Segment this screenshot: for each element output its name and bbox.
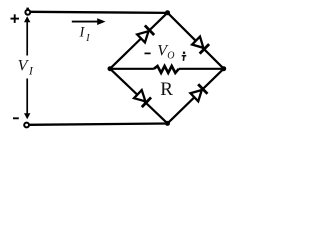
diode D4 bottom-right (anode bottom node, cathode right node) [190, 84, 208, 102]
node top junction dot [165, 10, 170, 15]
diode D1 top-left (anode left node, cathode top node) [136, 25, 154, 43]
current arrow II [72, 18, 106, 25]
wire top: terminal to top node [30, 12, 168, 13]
node bottom junction dot [165, 121, 170, 126]
node left junction dot [108, 66, 113, 71]
label VI [18, 57, 34, 77]
stub above terminal [26, 8, 29, 10]
label VO [157, 43, 174, 62]
label i (current) [182, 52, 187, 61]
svg-text:O: O [167, 51, 174, 62]
terminal bottom-left [24, 123, 29, 128]
voltage arrow VI (double headed, between terminals) [24, 16, 30, 119]
resistor R zigzag [154, 66, 179, 73]
svg-text:I: I [85, 33, 90, 44]
minus sign input polarity [13, 117, 19, 119]
terminal top-left [25, 10, 30, 15]
svg-text:R: R [160, 79, 173, 100]
wire top node to right node [168, 13, 224, 69]
wire bottom: terminal to bottom node [29, 124, 167, 125]
wire left node to resistor [110, 68, 154, 70]
wire left node to top node [110, 13, 168, 69]
wire resistor to right node [179, 68, 224, 70]
diode D3 bottom-left (anode left node, cathode bottom node) [133, 89, 151, 107]
wire bottom node to right node [168, 69, 224, 124]
label II [79, 25, 91, 45]
plus sign input polarity [11, 14, 20, 23]
diode D2 top-right (anode top node, cathode right node) [191, 36, 209, 54]
minus sign of VO [145, 52, 151, 54]
wire left node to bottom node [110, 69, 168, 124]
node right junction dot [221, 66, 226, 71]
